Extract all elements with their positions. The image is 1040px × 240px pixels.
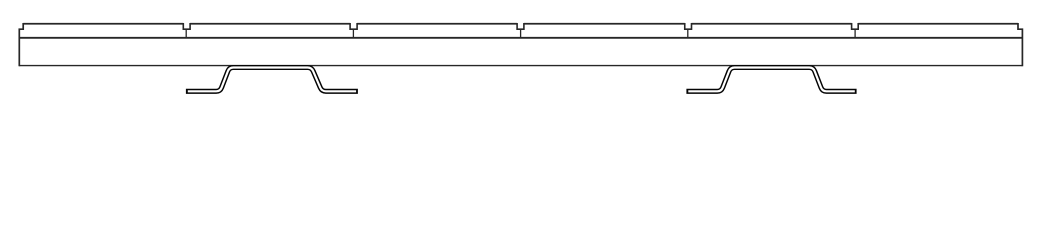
plank top edge segment 3 [357,23,517,25]
seam notch 4 [685,23,692,29]
seam notch 5 [852,23,859,29]
clip 1 inner [188,68,356,92]
plank top edge segment 2 [190,23,350,25]
clip 2 outer [686,68,856,92]
plank bottom line [19,65,1022,67]
plank groove line [19,37,1022,39]
clip 2 inner [688,68,855,92]
right end step and edge [1018,23,1022,66]
left end step and edge [19,23,23,66]
clip 1 outer [186,68,358,92]
seam joint line 3 [520,29,522,38]
seam joint line 4 [687,29,689,38]
seam joint line 1 [185,29,187,38]
seam notch 2 [350,23,357,29]
seam joint line 2 [352,29,354,38]
plank top edge segment 6 [858,23,1018,25]
plank top edge segment 1 [23,23,183,25]
seam joint line 5 [854,29,856,38]
seam notch 1 [183,23,190,29]
plank top edge segment 4 [524,23,685,25]
plank top edge segment 5 [692,23,852,25]
seam notch 3 [517,23,524,29]
